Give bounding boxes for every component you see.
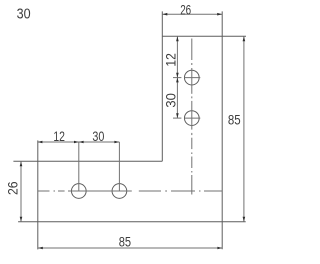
svg-text:30: 30 [164, 93, 179, 108]
svg-text:85: 85 [119, 235, 131, 250]
svg-text:12: 12 [53, 129, 65, 144]
svg-text:26: 26 [6, 181, 21, 195]
svg-text:30: 30 [17, 6, 31, 22]
svg-text:85: 85 [228, 113, 241, 128]
svg-text:26: 26 [180, 2, 191, 17]
svg-text:12: 12 [164, 53, 179, 67]
svg-text:30: 30 [92, 129, 104, 144]
